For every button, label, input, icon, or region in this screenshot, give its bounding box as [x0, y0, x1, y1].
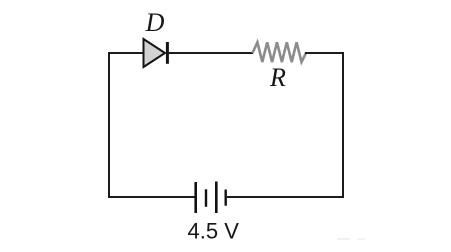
svg-text:D: D — [145, 8, 165, 37]
diode D triangle — [144, 39, 166, 67]
battery plate long left — [194, 182, 197, 213]
wire resistor to top-right corner — [305, 52, 344, 54]
wire right side — [342, 52, 344, 198]
wire left side — [108, 52, 110, 198]
wire battery to bottom-right corner — [227, 196, 344, 198]
battery plate short right — [224, 190, 226, 206]
svg-text:4.5 V: 4.5 V — [188, 218, 240, 243]
svg-text:R: R — [269, 63, 286, 92]
wire top-left segment — [108, 52, 144, 54]
faint artifact marks bottom right — [337, 238, 350, 240]
battery plate short — [205, 189, 207, 207]
wire diode to resistor — [168, 52, 253, 54]
battery plate long right — [215, 182, 218, 214]
diode D cathode bar — [166, 42, 169, 64]
resistor R zigzag — [253, 42, 307, 62]
wire bottom-left segment — [108, 196, 196, 198]
